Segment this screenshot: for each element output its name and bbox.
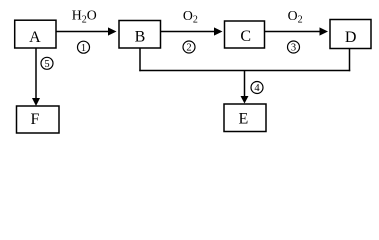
svg-text:2: 2 bbox=[186, 43, 191, 54]
svg-text:4: 4 bbox=[254, 83, 260, 94]
svg-text:5: 5 bbox=[44, 59, 49, 70]
svg-text:1: 1 bbox=[81, 43, 86, 54]
svg-text:3: 3 bbox=[291, 43, 296, 54]
svg-text:E: E bbox=[239, 111, 249, 128]
svg-text:D: D bbox=[345, 29, 357, 46]
svg-text:B: B bbox=[135, 29, 146, 46]
svg-text:A: A bbox=[29, 29, 41, 46]
svg-text:C: C bbox=[240, 28, 251, 45]
svg-text:F: F bbox=[31, 111, 40, 128]
